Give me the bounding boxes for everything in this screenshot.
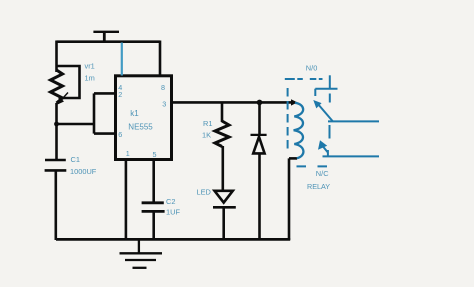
- relay dashed box bottom: [297, 165, 330, 167]
- svg-text:N/0: N/0: [306, 63, 318, 72]
- svg-text:C2: C2: [166, 197, 175, 206]
- wire pin2/6 loop: [94, 93, 116, 133]
- relay link dash upper: [329, 94, 331, 103]
- relay coil: [294, 103, 304, 158]
- svg-text:RELAY: RELAY: [307, 182, 330, 191]
- wire pin1 drop: [125, 160, 128, 241]
- wire top rail: [57, 40, 161, 43]
- svg-text:6: 6: [118, 130, 122, 139]
- relay common arm upper: [313, 100, 379, 121]
- svg-text:1UF: 1UF: [166, 207, 180, 216]
- resistor R1: [215, 102, 229, 191]
- svg-text:C1: C1: [71, 155, 80, 164]
- wire relay return: [289, 158, 297, 240]
- relay dashed box top: [285, 78, 323, 80]
- junction dot diode branch: [257, 100, 263, 106]
- wire pin3 arrow end: [291, 99, 298, 105]
- svg-text:k1: k1: [130, 109, 139, 118]
- LED D1: [213, 191, 236, 240]
- svg-text:1K: 1K: [202, 131, 211, 140]
- svg-text:8: 8: [161, 83, 165, 92]
- wire wiper to pin2/6 loop: [57, 123, 95, 126]
- svg-text:5: 5: [153, 150, 157, 159]
- wire left drop to VR1: [55, 41, 58, 73]
- timer IC k1 NE555: [116, 76, 172, 160]
- wire pin8 drop: [159, 41, 162, 77]
- svg-text:3: 3: [162, 100, 166, 109]
- relay NC contact arm: [318, 140, 379, 156]
- ground: [120, 239, 163, 267]
- svg-text:N/C: N/C: [316, 169, 329, 178]
- wire pin3: [172, 101, 294, 104]
- svg-text:2: 2: [118, 90, 122, 99]
- capacitor C1: [45, 160, 67, 240]
- diode D2 flyback: [251, 102, 267, 240]
- relay NO terminal: [315, 75, 337, 96]
- power V+ symbol: [93, 32, 119, 42]
- svg-text:NE555: NE555: [128, 123, 153, 132]
- svg-text:1: 1: [126, 149, 130, 158]
- potentiometer VR1: [51, 66, 80, 159]
- wire bottom rail: [56, 238, 290, 241]
- svg-text:vr1: vr1: [85, 62, 95, 71]
- wire pin4 teal: [121, 43, 123, 76]
- junction dot pot wiper feed: [54, 122, 59, 127]
- svg-text:LED: LED: [197, 188, 211, 197]
- svg-text:1000UF: 1000UF: [70, 167, 97, 176]
- capacitor C2: [142, 160, 165, 241]
- relay K1: [285, 75, 379, 166]
- svg-text:R1: R1: [203, 119, 212, 128]
- relay dashed box left: [287, 88, 289, 150]
- relay link dash lower: [329, 125, 331, 139]
- svg-text:1m: 1m: [85, 74, 95, 83]
